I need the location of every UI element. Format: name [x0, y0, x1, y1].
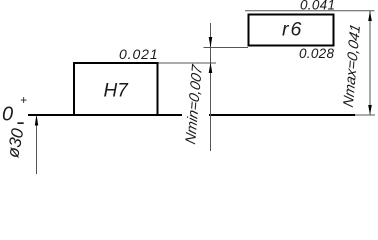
svg-text:0.021: 0.021 — [119, 46, 159, 62]
svg-text:0.041: 0.041 — [300, 0, 335, 13]
svg-text:r6: r6 — [282, 19, 303, 41]
svg-text:H7: H7 — [104, 81, 130, 102]
svg-text:+: + — [20, 93, 27, 107]
svg-text:0: 0 — [2, 104, 13, 126]
svg-text:0.028: 0.028 — [299, 46, 334, 61]
